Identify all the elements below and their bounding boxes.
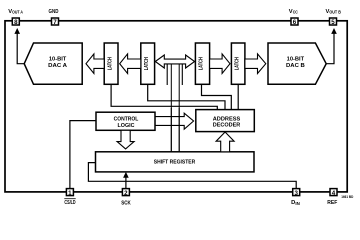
wire: CS/LD pin 1 to control logic bbox=[70, 121, 96, 189]
pin 1 box bbox=[66, 189, 73, 196]
svg-text:GND: GND bbox=[49, 9, 59, 15]
svg-text:4: 4 bbox=[332, 190, 336, 197]
svg-text:LATCH: LATCH bbox=[199, 57, 205, 71]
pin 8 box bbox=[12, 18, 19, 25]
open arrow: latch L3 to latch L4 bbox=[210, 54, 230, 74]
wire: latch L2 load line to address decoder bbox=[148, 84, 225, 109]
pin 6 box bbox=[291, 18, 298, 25]
address decoder block bbox=[196, 110, 255, 132]
open arrow: latch L4 to DAC B bbox=[245, 54, 266, 74]
latch L3 bbox=[195, 43, 209, 84]
svg-text:IN: IN bbox=[295, 201, 299, 206]
bus wire pair from double-arrow down to shift register bbox=[171, 64, 179, 152]
latch L4 bbox=[231, 43, 245, 84]
open arrow: shift register up to address decoder bbox=[216, 132, 234, 152]
wire: DAC B output to pin 5 bbox=[326, 31, 334, 64]
wire: DIN pin 3 routed under shift register into its left side bbox=[88, 163, 296, 189]
latch L1 bbox=[104, 43, 118, 84]
pin 4 box bbox=[330, 189, 337, 196]
svg-text:DAC B: DAC B bbox=[286, 63, 305, 69]
svg-text:CONTROL: CONTROL bbox=[114, 117, 139, 123]
svg-text:1661 BD: 1661 BD bbox=[341, 195, 353, 199]
package outline border bbox=[5, 21, 347, 192]
svg-text:CS/LD: CS/LD bbox=[64, 200, 75, 206]
bus stem walls below data double-arrow bbox=[167, 64, 182, 85]
wire: latch L3 load line to address decoder bbox=[202, 84, 232, 109]
svg-text:LATCH: LATCH bbox=[234, 57, 240, 71]
pin 3 box bbox=[293, 189, 300, 196]
svg-text:5: 5 bbox=[331, 19, 335, 26]
svg-text:ADDRESS: ADDRESS bbox=[213, 116, 241, 122]
svg-text:2: 2 bbox=[124, 190, 128, 197]
svg-text:LOGIC: LOGIC bbox=[118, 123, 135, 129]
svg-text:LATCH: LATCH bbox=[144, 57, 150, 71]
open arrow: latch L2 to latch L1 bbox=[120, 54, 141, 74]
svg-text:SHIFT REGISTER: SHIFT REGISTER bbox=[154, 159, 196, 165]
svg-text:LATCH: LATCH bbox=[107, 57, 113, 71]
svg-text:SCK: SCK bbox=[121, 200, 131, 206]
svg-text:10-BIT: 10-BIT bbox=[287, 56, 305, 62]
wire: latch L1 load line to address decoder bbox=[111, 84, 217, 109]
open arrow: control logic to address decoder bbox=[155, 113, 194, 129]
svg-text:OUT B: OUT B bbox=[329, 10, 341, 15]
pin 5 box bbox=[330, 18, 337, 25]
bus wire pair overdrawn across control arrow bbox=[171, 108, 179, 152]
wire: latch L4 load line to address decoder bbox=[237, 84, 239, 109]
svg-text:DECODER: DECODER bbox=[213, 123, 241, 129]
pin 2 box bbox=[122, 189, 129, 196]
svg-text:REF: REF bbox=[327, 200, 337, 206]
shift register block bbox=[96, 152, 255, 172]
svg-text:DAC A: DAC A bbox=[48, 63, 67, 69]
arrowhead into shift register bottom bbox=[123, 172, 129, 178]
control logic block bbox=[96, 112, 155, 130]
open arrow: latch L1 to DAC A bbox=[86, 54, 104, 74]
svg-text:3: 3 bbox=[294, 190, 298, 197]
open arrow: control logic down to shift register bbox=[117, 130, 134, 149]
svg-text:1: 1 bbox=[68, 190, 72, 197]
svg-text:CC: CC bbox=[293, 10, 299, 15]
svg-text:7: 7 bbox=[53, 19, 57, 26]
open double-headed data bus arrow between latch L2 and latch L3 bbox=[155, 55, 194, 68]
svg-text:OUT A: OUT A bbox=[12, 10, 23, 15]
svg-text:8: 8 bbox=[14, 19, 18, 26]
arrowhead into pin 8 bbox=[14, 28, 20, 34]
10-bit DAC B block bbox=[268, 43, 326, 84]
latch L2 bbox=[141, 43, 155, 84]
pin 7 box bbox=[52, 18, 59, 25]
arrowhead into pin 5 bbox=[331, 28, 337, 34]
wire: DAC A output to pin 8 bbox=[17, 31, 24, 64]
10-bit DAC A block bbox=[24, 43, 82, 84]
wire: SCK pin 2 to shift register bbox=[125, 177, 127, 189]
svg-text:6: 6 bbox=[293, 19, 297, 26]
svg-text:10-BIT: 10-BIT bbox=[49, 56, 67, 62]
